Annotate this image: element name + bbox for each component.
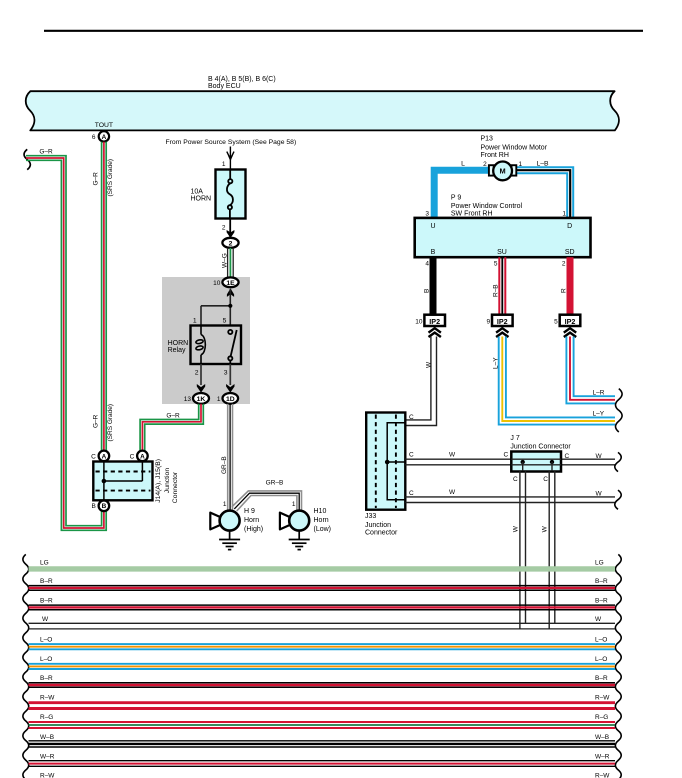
P13 label	[481, 136, 548, 159]
svg-text:Connector: Connector	[365, 529, 398, 536]
wire W middle (J33 to J7 to right)	[405, 459, 615, 465]
svg-text:1: 1	[222, 161, 226, 168]
motor tabs	[489, 165, 494, 175]
svg-text:R–W: R–W	[595, 695, 610, 702]
svg-text:P 9: P 9	[451, 195, 461, 202]
svg-text:2: 2	[229, 240, 233, 247]
svg-text:B–R: B–R	[40, 675, 53, 682]
J33 junction connector box	[366, 413, 405, 510]
svg-text:J14(A), J15(B): J14(A), J15(B)	[155, 459, 162, 503]
label G-R (SRS Grade) lower	[93, 404, 115, 442]
svg-text:5: 5	[494, 261, 498, 268]
Body ECU label	[208, 76, 276, 90]
svg-text:W: W	[42, 616, 49, 623]
svg-text:W: W	[596, 490, 603, 497]
svg-text:1: 1	[223, 501, 227, 508]
svg-text:G–R: G–R	[39, 149, 53, 156]
svg-text:U: U	[430, 223, 435, 230]
J33 label	[365, 513, 398, 537]
svg-text:2: 2	[222, 225, 226, 232]
svg-text:W: W	[596, 453, 603, 460]
squiggle L-Y end	[616, 410, 623, 432]
svg-text:W: W	[512, 525, 519, 532]
connector 1E	[222, 277, 238, 287]
J14 label rotated	[155, 459, 179, 503]
wire R (red)	[567, 257, 574, 315]
horn H9	[210, 513, 222, 530]
svg-text:2: 2	[562, 261, 566, 268]
svg-text:A: A	[102, 134, 107, 141]
dashed rows	[96, 472, 151, 491]
svg-text:L–O: L–O	[595, 656, 607, 663]
svg-text:W–B: W–B	[40, 734, 54, 741]
connector IP2 (5)	[560, 315, 581, 326]
connector 2	[222, 238, 238, 248]
svg-text:9: 9	[486, 319, 490, 326]
svg-text:B: B	[431, 249, 436, 256]
svg-text:(SRS Grade): (SRS Grade)	[107, 159, 114, 197]
svg-text:LG: LG	[40, 560, 49, 567]
svg-text:W: W	[425, 361, 432, 368]
HORN relay box	[191, 326, 242, 365]
svg-text:C: C	[565, 453, 570, 460]
svg-text:HORN: HORN	[168, 340, 189, 347]
svg-text:LG: LG	[595, 560, 604, 567]
svg-text:10: 10	[415, 319, 423, 326]
svg-text:Junction: Junction	[365, 522, 391, 529]
svg-text:L–O: L–O	[40, 656, 52, 663]
svg-text:5: 5	[554, 319, 558, 326]
ground H9	[219, 531, 240, 550]
svg-text:(SRS Grade): (SRS Grade)	[107, 404, 114, 442]
svg-text:GR–B: GR–B	[221, 456, 228, 474]
J33 internal wiring	[387, 423, 405, 500]
svg-text:W–B: W–B	[595, 734, 609, 741]
svg-text:B–R: B–R	[595, 578, 608, 585]
svg-text:R–G: R–G	[595, 714, 608, 721]
svg-text:Relay: Relay	[168, 347, 186, 354]
left tear squiggle	[23, 554, 29, 778]
svg-text:L–Y: L–Y	[593, 411, 605, 418]
connector 1D	[223, 393, 239, 404]
svg-text:R–G: R–G	[40, 714, 53, 721]
internal wiring	[104, 461, 142, 500]
svg-text:Junction: Junction	[164, 468, 171, 494]
svg-text:SD: SD	[565, 249, 575, 256]
svg-text:Power Window Motor: Power Window Motor	[481, 145, 548, 152]
vertical W wires from J7	[520, 462, 555, 630]
svg-text:Connector: Connector	[172, 471, 179, 503]
svg-text:GR–B: GR–B	[266, 480, 284, 487]
svg-text:1E: 1E	[226, 280, 235, 287]
svg-text:G–R: G–R	[93, 172, 100, 186]
connector B	[99, 501, 110, 512]
svg-text:10: 10	[213, 280, 221, 287]
relay shield gray box	[162, 277, 250, 404]
fuse 10A HORN	[216, 170, 246, 219]
svg-text:1: 1	[562, 211, 566, 218]
svg-text:13: 13	[184, 396, 192, 403]
label G-R (SRS Grade) upper	[93, 159, 115, 197]
connector IP2 (10)	[424, 315, 445, 326]
svg-text:HORN: HORN	[191, 195, 212, 202]
wire GR-B from 1D to horn H9	[228, 404, 233, 511]
svg-text:1: 1	[193, 318, 197, 325]
svg-text:4: 4	[425, 261, 429, 268]
svg-text:Horn: Horn	[244, 517, 259, 524]
svg-text:1K: 1K	[197, 396, 206, 403]
svg-text:1: 1	[519, 161, 523, 168]
wire break squiggle top-left	[24, 149, 30, 169]
svg-text:C: C	[543, 476, 548, 483]
J7 junction connector box	[511, 452, 561, 472]
svg-text:L: L	[461, 161, 465, 168]
Body ECU band	[26, 91, 619, 130]
svg-text:L–O: L–O	[40, 636, 52, 643]
horn H10	[280, 513, 292, 530]
J7 label	[510, 435, 571, 451]
svg-text:R–W: R–W	[40, 695, 55, 702]
wire W lower (J33 to right)	[405, 497, 615, 503]
P 9 label	[451, 195, 523, 218]
squiggle lower W wire end	[615, 490, 621, 509]
svg-text:SU: SU	[497, 249, 507, 256]
svg-text:B 4(A), B 5(B), B 6(C): B 4(A), B 5(B), B 6(C)	[208, 76, 276, 83]
svg-text:B–R: B–R	[595, 675, 608, 682]
svg-text:From Power Source System (See: From Power Source System (See Page 58)	[166, 139, 297, 146]
svg-text:IP2: IP2	[565, 317, 576, 326]
svg-text:J 7: J 7	[510, 435, 519, 442]
relay coil	[196, 326, 206, 365]
svg-text:C: C	[504, 452, 509, 459]
svg-text:Horn: Horn	[314, 517, 329, 524]
svg-text:W–G: W–G	[222, 253, 229, 268]
wire L-Y from IP2-9	[499, 337, 615, 425]
svg-text:B–R: B–R	[40, 578, 53, 585]
wire GR-B linking H9 and H10	[232, 491, 302, 511]
svg-text:Junction Connector: Junction Connector	[510, 444, 571, 451]
svg-text:P13: P13	[481, 136, 494, 143]
svg-text:B–R: B–R	[40, 597, 53, 604]
svg-text:B: B	[91, 503, 95, 510]
svg-text:3: 3	[425, 211, 429, 218]
right tear squiggle	[615, 554, 621, 778]
wires relay to 1K / 1D	[201, 364, 230, 385]
power window control SW box	[415, 218, 591, 257]
svg-text:IP2: IP2	[497, 317, 508, 326]
svg-text:B: B	[424, 289, 431, 293]
svg-text:C: C	[409, 490, 414, 497]
arrow into fuse	[227, 147, 234, 170]
wire W-G	[228, 248, 234, 277]
svg-text:R–B: R–B	[493, 284, 500, 297]
svg-text:TOUT: TOUT	[95, 122, 113, 129]
svg-text:H10: H10	[314, 508, 327, 515]
svg-text:W: W	[595, 616, 602, 623]
svg-text:W–R: W–R	[40, 753, 55, 760]
svg-text:B: B	[102, 503, 107, 510]
connector A left	[99, 451, 110, 462]
fuse element	[227, 170, 233, 239]
svg-text:L–Y: L–Y	[492, 357, 499, 369]
connector IP2 (9)	[492, 315, 513, 326]
svg-text:R: R	[561, 288, 568, 293]
J7 internal dots	[521, 460, 525, 464]
top rule	[44, 30, 643, 32]
arrow up from 1E	[227, 288, 234, 297]
svg-text:Body ECU: Body ECU	[208, 83, 241, 90]
svg-text:L–B: L–B	[537, 161, 550, 168]
connector 1K	[193, 393, 209, 404]
svg-text:C: C	[513, 476, 518, 483]
svg-text:R–W: R–W	[40, 773, 55, 778]
svg-text:D: D	[567, 223, 572, 230]
wire L-R from IP2-5	[566, 337, 615, 404]
svg-text:L–O: L–O	[595, 636, 607, 643]
junction connector J14(A), J15(B) box	[93, 462, 152, 501]
wire G-R from 1K to J14 A	[140, 404, 203, 451]
svg-text:M: M	[500, 167, 506, 176]
svg-text:W: W	[449, 489, 456, 496]
svg-text:A: A	[102, 453, 107, 460]
svg-text:A: A	[140, 453, 145, 460]
svg-text:R–W: R–W	[595, 773, 610, 778]
wire L (motor to SW pin 3)	[434, 170, 490, 218]
svg-text:W: W	[542, 525, 549, 532]
wire L-B (motor to SW pin 1)	[515, 167, 573, 218]
wire 1E to relay	[201, 289, 230, 326]
wire G-R left (to connector B)	[26, 156, 106, 531]
svg-text:C: C	[91, 453, 96, 460]
svg-text:1: 1	[217, 396, 221, 403]
svg-text:Power Window Control: Power Window Control	[451, 203, 523, 210]
svg-text:C: C	[130, 453, 135, 460]
wire W from IP2-10 to J33	[405, 337, 436, 426]
svg-text:2: 2	[195, 370, 199, 377]
svg-text:W: W	[449, 452, 456, 459]
motor M P13	[493, 162, 512, 181]
svg-text:3: 3	[224, 370, 228, 377]
squiggle L-R end	[616, 389, 623, 411]
J7 internal wire	[511, 459, 561, 465]
wire B (black)	[430, 257, 437, 315]
arrow down to connector 2	[227, 230, 235, 238]
svg-text:J33: J33	[365, 513, 376, 520]
squiggle middle W wire end	[615, 452, 621, 471]
svg-text:C: C	[409, 452, 414, 459]
svg-text:(Low): (Low)	[314, 526, 332, 533]
svg-text:1D: 1D	[226, 396, 235, 403]
relay switch	[228, 330, 237, 364]
wire G-R from A down to J14	[102, 142, 107, 451]
svg-text:B–R: B–R	[595, 597, 608, 604]
svg-text:G–R: G–R	[93, 414, 100, 428]
svg-text:G–R: G–R	[166, 413, 180, 420]
chevrons below IP2 (10)	[429, 328, 441, 337]
wire R-B	[499, 257, 505, 315]
svg-text:IP2: IP2	[429, 317, 440, 326]
svg-text:Front RH: Front RH	[481, 152, 509, 159]
arrow down to 1D	[226, 384, 234, 393]
svg-text:6: 6	[92, 134, 96, 141]
svg-text:2: 2	[483, 161, 487, 168]
svg-text:H 9: H 9	[244, 508, 255, 515]
connector A right	[137, 451, 148, 462]
connector A (Body ECU pin 6)	[99, 131, 109, 141]
svg-text:L–R: L–R	[593, 389, 605, 396]
svg-text:5: 5	[223, 318, 227, 325]
svg-text:W–R: W–R	[595, 753, 610, 760]
svg-text:1: 1	[292, 501, 296, 508]
junction dot	[228, 304, 232, 308]
arrow down to 1K	[197, 384, 205, 393]
svg-text:(High): (High)	[244, 526, 263, 533]
svg-text:C: C	[409, 414, 414, 421]
ground H10	[289, 531, 310, 550]
